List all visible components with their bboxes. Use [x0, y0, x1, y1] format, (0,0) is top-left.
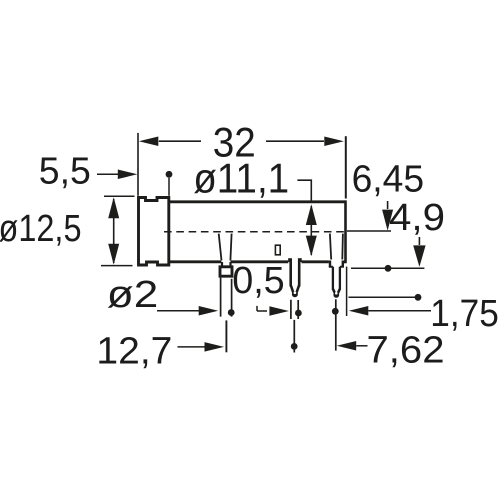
svg-text:ø12,5: ø12,5: [0, 208, 82, 250]
svg-text:5,5: 5,5: [39, 150, 91, 192]
svg-text:6,45: 6,45: [352, 159, 425, 201]
svg-text:0,5: 0,5: [232, 260, 285, 302]
svg-text:12,7: 12,7: [96, 331, 172, 373]
svg-text:7,62: 7,62: [367, 330, 445, 372]
svg-text:1,75: 1,75: [430, 293, 499, 335]
svg-text:ø11,1: ø11,1: [193, 154, 289, 201]
svg-text:4,9: 4,9: [389, 197, 445, 239]
svg-text:ø2: ø2: [107, 274, 159, 316]
